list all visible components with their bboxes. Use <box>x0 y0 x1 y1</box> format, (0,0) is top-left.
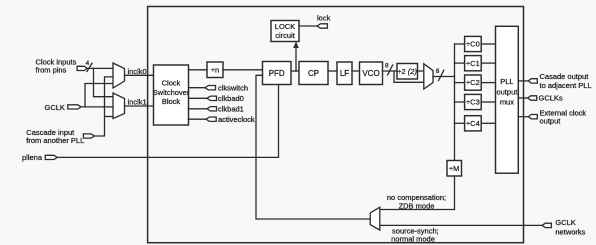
wire: cascade input to muxes <box>94 77 113 136</box>
wire: inclk0 into clock switchover block <box>125 74 154 76</box>
wire: stub to C2 <box>455 82 465 84</box>
svg-text:to adjacent PLL: to adjacent PLL <box>540 81 592 90</box>
wire: /n to PFD <box>223 69 263 71</box>
wire: VCO to divide-by-2 <box>383 70 398 72</box>
wire: CP to LF <box>328 70 337 72</box>
pin: GCLK <box>68 105 81 109</box>
svg-text:÷C1: ÷C1 <box>466 59 480 68</box>
pin: clkbad0 <box>207 96 217 100</box>
svg-text:GCLK: GCLK <box>555 218 575 227</box>
svg-text:PFD: PFD <box>269 69 285 78</box>
wire: cascade branch to inclk1 mux third input <box>105 116 114 118</box>
wire: C2 to output mux <box>481 82 495 84</box>
counter /C3 <box>465 94 482 109</box>
svg-text:inclk1: inclk1 <box>128 98 147 107</box>
block: PLL output mux <box>496 26 519 173</box>
counter /C0 <box>465 36 482 51</box>
pin: external clock output <box>528 115 537 119</box>
mux: inclk0 input mux <box>113 63 125 88</box>
svg-text:inclk0: inclk0 <box>128 67 147 76</box>
counter /C1 <box>465 56 482 71</box>
svg-text:CP: CP <box>308 69 319 78</box>
wire: stub to C3 <box>455 101 465 103</box>
counter /C4 <box>465 116 482 131</box>
wire: clkbad1 <box>189 108 207 110</box>
pin: GCLK networks <box>542 223 551 227</box>
svg-text:networks: networks <box>555 227 585 236</box>
svg-text:output: output <box>540 116 562 125</box>
wire: GCLK networks into feedback mux <box>380 224 542 226</box>
wire: GCLK branch up to inclk0 mux <box>85 84 113 107</box>
wire: feedback mux output to PFD <box>256 75 370 219</box>
svg-text:4: 4 <box>86 60 90 67</box>
svg-text:clkbad1: clkbad1 <box>218 105 244 114</box>
label GCLK <box>45 103 65 112</box>
wire: C4 to output mux <box>481 122 495 124</box>
wire: clkbad0 <box>189 97 207 99</box>
pin: clkswitch <box>205 86 216 90</box>
svg-text:lock: lock <box>317 13 331 22</box>
svg-text:÷2 (2): ÷2 (2) <box>397 67 417 76</box>
pin: cascade output <box>528 79 537 83</box>
svg-text:VCO: VCO <box>362 69 379 78</box>
wire: activeclock <box>189 118 206 120</box>
svg-text:GCLK: GCLK <box>45 103 65 112</box>
label pllena <box>22 153 43 162</box>
svg-text:normal mode: normal mode <box>391 234 435 243</box>
mux: feedback select mux <box>370 207 380 230</box>
svg-text:÷C0: ÷C0 <box>466 40 480 49</box>
divider /n <box>207 62 223 78</box>
mux: VCO post-scale mux <box>424 64 433 89</box>
wire: C0 to output mux <box>481 43 495 45</box>
block VCO <box>360 62 383 85</box>
wire: stub to C0 <box>455 43 465 45</box>
svg-text:8: 8 <box>436 68 440 75</box>
bus slash 8 after VCO <box>388 65 393 75</box>
svg-text:GCLKs: GCLKs <box>539 94 563 103</box>
svg-text:pllena: pllena <box>22 153 43 162</box>
divider /M <box>447 161 462 177</box>
label: source-synch; normal mode <box>391 227 439 244</box>
pin: clock inputs from pins <box>77 66 87 70</box>
block CP <box>299 62 328 85</box>
svg-text:clkbad0: clkbad0 <box>218 94 244 103</box>
wire: switchover block to divide-by-n <box>189 69 208 71</box>
block: Clock Switchover Block U1 <box>154 65 189 125</box>
wire: lock output <box>299 25 317 27</box>
svg-text:8: 8 <box>385 63 389 70</box>
pin: activeclock <box>206 117 216 121</box>
svg-text:Casade output: Casade output <box>540 72 590 81</box>
divider /2 (2) <box>397 64 418 80</box>
wire: stub to C4 <box>455 122 465 124</box>
svg-text:circuit: circuit <box>275 31 296 40</box>
wire: GCLKs output <box>518 97 527 99</box>
svg-text:Switchover: Switchover <box>153 88 190 97</box>
wire: clock pins branch down to inclk1 mux <box>94 68 114 96</box>
svg-text:LOCK: LOCK <box>275 22 295 31</box>
wire: PFD tap up to LOCK circuit with arrowhead <box>295 47 297 72</box>
svg-text:from pins: from pins <box>36 66 67 75</box>
wire: C1 to output mux <box>481 62 495 64</box>
wire: cascade output <box>518 80 528 82</box>
svg-text:÷n: ÷n <box>211 66 219 75</box>
pin: cascade input <box>83 134 94 138</box>
wire: stub to C1 <box>455 62 465 64</box>
pin: clkbad1 <box>207 107 217 111</box>
svg-text:Block: Block <box>162 97 181 106</box>
label: no compensation; ZDB mode <box>387 193 446 210</box>
bus width slash 4 <box>87 63 92 71</box>
pin: pllena <box>45 155 57 159</box>
svg-text:from another PLL: from another PLL <box>26 136 84 145</box>
svg-text:ZDB mode: ZDB mode <box>399 201 435 210</box>
bus slash 8 after mux <box>439 70 444 80</box>
pin: GCLKs <box>528 96 537 100</box>
wire: PFD to CP <box>291 70 299 72</box>
svg-text:clkswitch: clkswitch <box>218 83 248 92</box>
node label inclk1 <box>128 98 147 107</box>
svg-text:÷C2: ÷C2 <box>466 78 480 87</box>
label: Cascade input from another PLL <box>26 128 84 145</box>
wire: external clock output <box>518 116 528 118</box>
mux: inclk1 input mux <box>113 93 125 119</box>
svg-text:÷C3: ÷C3 <box>466 98 480 107</box>
svg-text:÷C4: ÷C4 <box>466 119 480 128</box>
wire: inclk1 into clock switchover block <box>125 105 154 107</box>
pin: lock <box>317 24 327 28</box>
node label inclk0 <box>128 67 147 76</box>
svg-text:output: output <box>496 87 518 96</box>
svg-text:÷M: ÷M <box>449 164 459 173</box>
wire: LF to VCO <box>352 70 360 72</box>
svg-text:mux: mux <box>500 97 514 106</box>
block LOCK circuit <box>271 21 299 42</box>
wire: GCLK to inclk1 mux <box>81 106 113 108</box>
wire: C3 to output mux <box>481 101 495 103</box>
counter /C2 <box>465 75 482 90</box>
wire: VCO bypass below /2 <box>394 71 424 82</box>
PLL boundary frame <box>148 7 524 243</box>
wire: /2 to VCO mux <box>418 70 424 72</box>
block PFD <box>263 62 292 85</box>
wire: counter input bus vertical <box>454 44 456 160</box>
wire: clkswitch <box>189 87 205 89</box>
wire: mux to counter bus <box>433 76 455 78</box>
label: Clock inputs from pins <box>36 58 77 75</box>
block LF <box>337 62 352 85</box>
svg-text:activeclock: activeclock <box>218 115 255 124</box>
svg-text:LF: LF <box>340 69 349 78</box>
svg-text:Clock: Clock <box>162 79 181 88</box>
wire: /M down to feedback mux (ZDB path) <box>380 176 455 210</box>
wire: pllena to PFD enable <box>57 85 278 158</box>
wire: clock pins to inclk0 mux <box>87 67 113 69</box>
svg-text:PLL: PLL <box>500 77 513 86</box>
